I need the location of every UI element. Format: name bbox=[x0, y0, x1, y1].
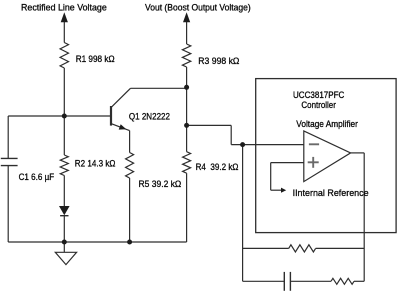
svg-text:R3 998 kΩ: R3 998 kΩ bbox=[198, 56, 239, 66]
svg-text:R5 39.2 kΩ: R5 39.2 kΩ bbox=[139, 179, 182, 189]
svg-text:Rectified Line Voltage: Rectified Line Voltage bbox=[21, 3, 107, 13]
svg-text:Vout (Boost Output Voltage): Vout (Boost Output Voltage) bbox=[145, 3, 251, 13]
svg-text:R2 14.3 kΩ: R2 14.3 kΩ bbox=[75, 158, 116, 168]
svg-text:Q1 2N2222: Q1 2N2222 bbox=[129, 112, 170, 122]
svg-text:IInternal Reference: IInternal Reference bbox=[293, 188, 369, 198]
svg-text:R1 998 kΩ: R1 998 kΩ bbox=[76, 54, 115, 64]
svg-text:UCC3817PFC: UCC3817PFC bbox=[293, 90, 345, 100]
svg-text:Voltage Amplifier: Voltage Amplifier bbox=[296, 119, 358, 129]
svg-text:R4 39.2 kΩ: R4 39.2 kΩ bbox=[196, 162, 239, 172]
svg-text:C1 6.6 µF: C1 6.6 µF bbox=[19, 172, 55, 182]
svg-text:Controller: Controller bbox=[301, 100, 336, 110]
